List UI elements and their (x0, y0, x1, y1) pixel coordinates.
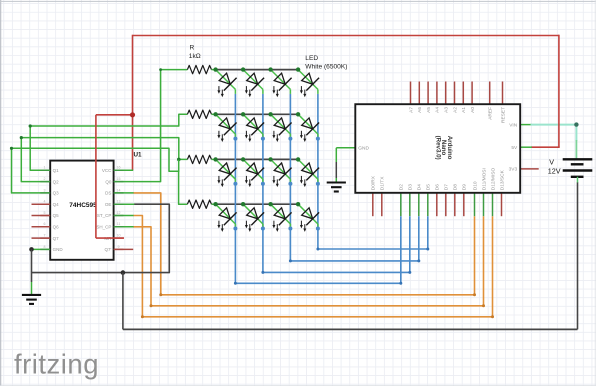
LED row 2 col 3 (271, 114, 292, 142)
node ground-bus junction (121, 270, 126, 275)
transistor U2 Arduino Nano (Rev3.0) (355, 104, 520, 193)
resistor R row 1 1k (187, 65, 215, 73)
wire row 1 bus (216, 69, 299, 71)
node anode junction r2c4 (296, 112, 300, 116)
LED row 1 col 1 (216, 70, 237, 98)
svg-text:5V: 5V (511, 145, 518, 151)
node cathode junction r4c2 (261, 227, 265, 231)
svg-text:7: 7 (44, 234, 46, 238)
svg-text:U1: U1 (134, 152, 143, 159)
wire segment row3-row4 jog (178, 160, 180, 172)
LED row 1 col 4 (298, 70, 319, 98)
node anode junction r3c4 (296, 157, 300, 161)
svg-text:5: 5 (44, 211, 46, 215)
svg-text:SH_CP: SH_CP (96, 225, 111, 230)
label White (6500K) (305, 64, 347, 71)
svg-text:A4: A4 (435, 107, 441, 113)
svg-text:12V: 12V (548, 167, 561, 176)
svg-text:D6: D6 (435, 184, 441, 190)
node U1 GND junction (29, 247, 34, 252)
svg-text:D5: D5 (426, 184, 432, 190)
node bend Q3 bracket (10, 147, 13, 150)
arduino top pin legs A7-A0 AREF RESET (411, 82, 503, 105)
node bend D10 orange (473, 293, 476, 296)
node cathode junction r2c2 (261, 137, 265, 141)
wire OE green stub (114, 203, 135, 205)
svg-text:GND: GND (358, 146, 369, 152)
svg-text:OE: OE (105, 202, 112, 207)
wire 5V red segment (531, 146, 560, 148)
wire VCC net: branch left from junction (96, 114, 133, 116)
svg-text:Q7′: Q7′ (105, 247, 112, 252)
svg-text:Q2: Q2 (53, 179, 60, 184)
battery V 12V (563, 159, 593, 182)
svg-text:10: 10 (117, 234, 121, 238)
node cathode junction r2c4 (316, 137, 320, 141)
svg-text:12: 12 (117, 211, 121, 215)
node anode junction r1c2 (241, 67, 245, 71)
wire U1 GND stub (32, 248, 51, 250)
svg-text:ST_CP: ST_CP (97, 213, 112, 218)
wire ground bus drop (122, 273, 124, 330)
svg-text:16: 16 (117, 166, 121, 170)
node bend column D2 b (399, 282, 402, 285)
node anode junction r4c4 (296, 202, 300, 206)
ground near U1 (22, 295, 41, 304)
ground near Arduino (327, 183, 346, 192)
resistor R row 3 1k (187, 155, 215, 163)
wire LED column x=262.9 to D3 (263, 94, 410, 273)
svg-text:RESET: RESET (500, 107, 506, 123)
wire Q7' unconnected red (114, 248, 134, 250)
wire VCC net: left drop to U1 VCC pin (132, 35, 134, 171)
label battery V (549, 157, 554, 166)
svg-text:A2: A2 (452, 107, 458, 113)
label U1 (134, 152, 143, 159)
svg-text:D2: D2 (399, 184, 405, 190)
node bend column D5 a (316, 248, 319, 251)
node bend column D5 b (426, 248, 429, 251)
wire row 3 bus (216, 158, 299, 160)
node anode junction r4c1 (213, 202, 217, 206)
wire LED column x=317.9 to D5 (318, 94, 428, 249)
svg-text:Q5: Q5 (53, 213, 60, 218)
svg-text:8: 8 (44, 245, 46, 249)
svg-text:A7: A7 (408, 107, 414, 113)
svg-text:11: 11 (117, 222, 121, 226)
node cathode junction r2c3 (288, 137, 292, 141)
wire LED column x=290.4 to D4 (290, 94, 418, 261)
resistor R row 2 1k (187, 110, 215, 118)
node bend DS orange (159, 293, 162, 296)
fritzing watermark (14, 349, 99, 380)
svg-text:74HC595: 74HC595 (69, 202, 97, 209)
node anode junction r3c3 (268, 157, 272, 161)
svg-text:Q3: Q3 (53, 191, 60, 196)
wire 3V3 unconnected red (520, 168, 539, 170)
label 1k (189, 53, 201, 60)
LED row 3 col 4 (298, 159, 319, 187)
wire row 2 bus (216, 113, 299, 115)
node bend D12 orange (491, 315, 494, 318)
node bend column D3 a (261, 271, 264, 274)
node anode junction r3c1 (213, 157, 217, 161)
node anode junction r3c2 (241, 157, 245, 161)
svg-text:14: 14 (117, 188, 121, 192)
wire Q4 unconnected red (32, 203, 51, 205)
node cathode junction r3c3 (288, 182, 292, 186)
node anode junction r1c3 (268, 67, 272, 71)
wire VCC net: drop to MR row over U1 (95, 115, 97, 238)
LED row 3 col 3 (271, 159, 292, 187)
svg-text:fritzing: fritzing (14, 349, 99, 380)
wire SH_CP green stub (114, 226, 134, 228)
LED row 1 col 3 (271, 70, 292, 98)
wire Q7 unconnected red (32, 237, 51, 239)
wire GND drop to ground symbol (31, 249, 33, 294)
svg-text:15: 15 (117, 177, 121, 181)
svg-text:1kΩ: 1kΩ (189, 53, 201, 60)
svg-text:VCC: VCC (102, 168, 112, 173)
svg-text:A6: A6 (417, 107, 423, 113)
node bend column D2 a (234, 282, 237, 285)
label battery 12V (548, 167, 561, 176)
svg-text:AREF: AREF (488, 107, 494, 120)
wire Arduino GND to ground (336, 148, 355, 182)
wire Q1 to row 2 feed (30, 114, 187, 170)
node cathode junction r4c4 (316, 227, 320, 231)
svg-text:D0/RX: D0/RX (371, 175, 377, 190)
svg-text:Q4: Q4 (53, 202, 60, 207)
node bend column D4 b (417, 259, 420, 262)
wire VCC net: right drop to Arduino 5V (558, 35, 560, 148)
svg-text:A0: A0 (470, 107, 476, 113)
node bend VIN-battery (574, 122, 578, 126)
node bend Q2 bracket (20, 136, 23, 139)
wire VCC green stub at U1 (114, 169, 134, 171)
node anode junction r1c1 (213, 67, 217, 71)
LED row 2 col 4 (298, 114, 319, 142)
LED row 4 col 3 (271, 204, 292, 232)
node VCC junction (130, 112, 135, 117)
node anode junction r1c4 (296, 67, 300, 71)
svg-text:D4: D4 (417, 184, 423, 190)
wire LED column x=235.4 to D2 (235, 94, 400, 283)
label R (190, 44, 195, 51)
node anode junction r4c3 (268, 202, 272, 206)
node bend column D4 a (289, 259, 292, 262)
LED row 4 col 1 (216, 204, 237, 232)
svg-text:V: V (549, 157, 554, 166)
svg-text:D1/TX: D1/TX (380, 176, 386, 190)
node bend Q1 bracket (29, 124, 32, 127)
svg-text:D10: D10 (472, 181, 478, 190)
wire battery negative riser (577, 182, 579, 329)
svg-text:2: 2 (44, 177, 46, 181)
svg-text:A3: A3 (444, 107, 450, 113)
svg-text:VIN: VIN (509, 122, 518, 128)
wire DS to D10 orange (133, 193, 474, 295)
wire Q2 to row 3 feed (21, 138, 187, 182)
node anode junction r2c3 (268, 112, 272, 116)
wire VCC net: into MR pin (96, 237, 124, 239)
svg-text:LED: LED (305, 55, 318, 62)
svg-text:D9: D9 (462, 184, 468, 190)
LED row 2 col 1 (216, 114, 237, 142)
wire 5V green stub (520, 146, 532, 148)
LED row 4 col 2 (243, 204, 264, 232)
wire OE to ground bus (32, 204, 170, 272)
arduino bottom pin legs (373, 193, 502, 216)
svg-text:9: 9 (118, 245, 120, 249)
svg-text:D12/MISO: D12/MISO (490, 168, 496, 191)
svg-text:6: 6 (44, 222, 46, 226)
svg-text:3V3: 3V3 (509, 167, 518, 173)
node bend Q0-row1 (159, 68, 162, 71)
svg-text:Q1: Q1 (53, 168, 60, 173)
node bend SH_CP orange (150, 304, 153, 307)
wire Q0 to row 1 feed (114, 70, 188, 182)
node cathode junction r3c4 (316, 182, 320, 186)
node bend D11 orange (482, 304, 485, 307)
wire ST_CP to D12 orange (133, 216, 492, 317)
svg-text:Q7: Q7 (53, 236, 60, 241)
LED row 3 col 1 (216, 159, 237, 187)
node bend column D3 b (408, 271, 411, 274)
svg-text:A5: A5 (426, 107, 432, 113)
wire bottom ground rail (123, 328, 578, 330)
svg-text:D3: D3 (408, 184, 414, 190)
node cathode junction r4c1 (233, 227, 237, 231)
svg-text:D13/SCK: D13/SCK (499, 169, 505, 190)
node anode junction r2c1 (213, 112, 217, 116)
svg-text:A1: A1 (461, 107, 467, 113)
node cathode junction r3c1 (233, 182, 237, 186)
svg-text:D11/MOSI: D11/MOSI (481, 168, 487, 190)
node cathode junction r3c2 (261, 182, 265, 186)
wire Q3 to row 4 feed (12, 148, 188, 204)
wire VIN to battery positive (520, 124, 576, 159)
wire VCC net: top rail from U1 to 5V corner (133, 35, 559, 37)
LED row 3 col 2 (243, 159, 264, 187)
svg-text:D7: D7 (444, 184, 450, 190)
node cathode junction r4c3 (288, 227, 292, 231)
node anode junction r2c2 (241, 112, 245, 116)
svg-text:Q0: Q0 (105, 179, 112, 184)
svg-text:Q6: Q6 (53, 225, 60, 230)
svg-text:R: R (190, 44, 195, 51)
node anode junction r4c2 (241, 202, 245, 206)
node cathode junction r2c1 (233, 137, 237, 141)
wire row 4 bus (216, 203, 299, 205)
op-amp U1 74HC595 shift register (40, 161, 123, 260)
resistor R row 4 1k (187, 200, 215, 208)
label LED (305, 55, 318, 62)
wire Q5 unconnected red (32, 215, 51, 217)
svg-text:D8: D8 (453, 184, 459, 190)
svg-text:3: 3 (44, 188, 46, 192)
LED row 1 col 2 (243, 70, 264, 98)
svg-text:1: 1 (44, 166, 46, 170)
wire DS green stub (114, 192, 134, 194)
LED row 2 col 2 (243, 114, 264, 142)
LED row 4 col 4 (298, 204, 319, 232)
wire SH_CP to D11 orange (133, 216, 483, 306)
wire Q6 unconnected red (32, 226, 51, 228)
svg-text:GND: GND (53, 247, 64, 252)
wire ST_CP green stub (114, 215, 134, 217)
node bend ST_CP orange (141, 315, 144, 318)
svg-text:White (6500K): White (6500K) (305, 64, 347, 71)
node junction row3 feed (177, 158, 181, 162)
svg-text:4: 4 (44, 200, 46, 204)
svg-text:DS: DS (105, 191, 111, 196)
svg-text:13: 13 (117, 200, 121, 204)
